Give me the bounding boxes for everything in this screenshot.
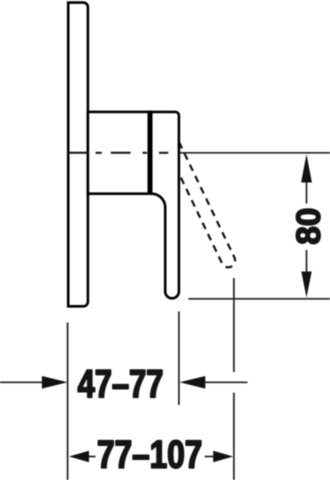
dimension 47-77 left arrow — [42, 376, 68, 389]
dimension 80 line above label — [306, 182, 308, 204]
dimension 77-107 right arrow — [213, 451, 233, 462]
lever handle dashed open position — [156, 119, 238, 269]
dimension 47-77 right tail — [205, 381, 248, 383]
centerline solid segment through plate — [67, 152, 88, 154]
extension line 80 top at axis — [180, 152, 330, 154]
centerline stub before joint — [143, 152, 148, 154]
lever handle — [150, 112, 179, 298]
dimension 80 line below label — [306, 250, 308, 272]
centerline short dash — [96, 152, 102, 154]
dimension 80 top arrow — [301, 154, 312, 182]
extension line dashed lever tip upper part — [233, 278, 235, 372]
valve body — [88, 112, 150, 194]
extension line dashed lever tip lower part — [233, 393, 235, 480]
wall plate — [68, 3, 88, 307]
dimension label 77-107 — [98, 440, 200, 468]
dimension label 47-77 — [78, 370, 162, 397]
dimension 80 bottom arrow — [301, 272, 311, 298]
centerline dash in lever base — [159, 152, 168, 154]
extension line lever front below handle — [178, 312, 180, 406]
dimension 77-107 left arrow — [69, 451, 89, 462]
dimension 77-107 left stub — [89, 456, 96, 458]
centerline long dash — [111, 152, 131, 154]
dimension 47-77 left tail — [0, 381, 43, 383]
body-lever joint double line — [148, 112, 153, 194]
dimension 47-77 right arrow — [180, 376, 206, 389]
dimension 77-107 right stub — [205, 456, 214, 458]
extension line wall face below plate — [67, 323, 69, 480]
extension line 80 bottom at lever tip — [188, 298, 330, 300]
dimension label 80 — [296, 209, 320, 244]
